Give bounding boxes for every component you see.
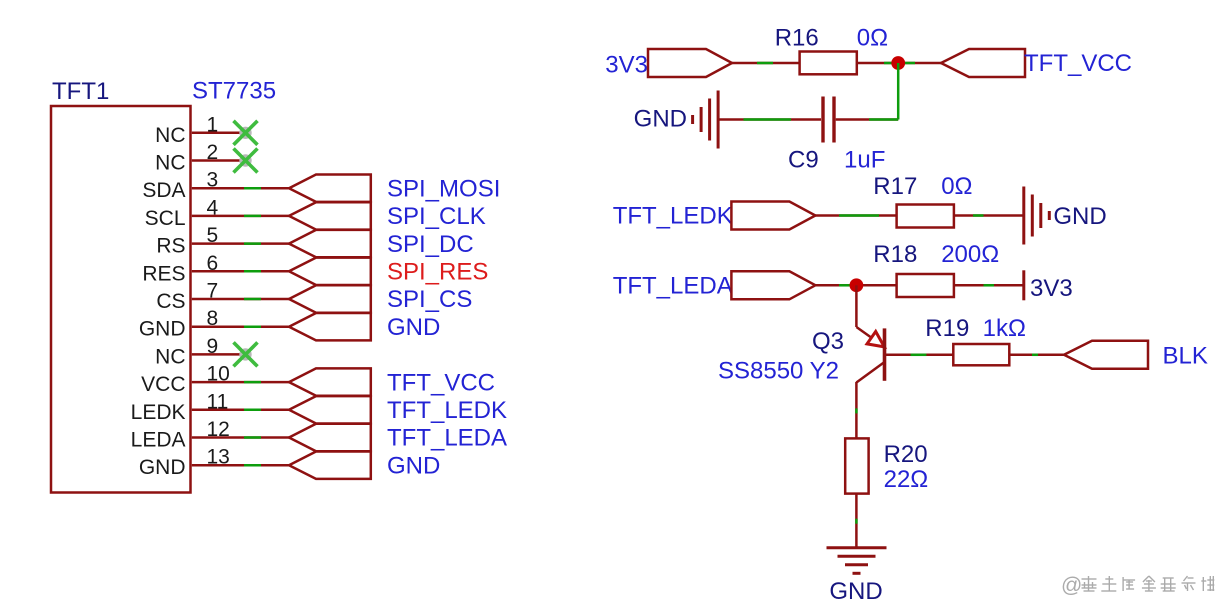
svg-text:CS: CS <box>156 290 185 313</box>
svg-text:BLK: BLK <box>1163 342 1208 369</box>
svg-text:3V3: 3V3 <box>1030 275 1073 302</box>
svg-text:TFT1: TFT1 <box>52 78 109 105</box>
svg-text:7: 7 <box>207 280 219 303</box>
svg-text:GND: GND <box>387 452 440 479</box>
svg-text:SCL: SCL <box>145 207 186 230</box>
svg-text:1kΩ: 1kΩ <box>983 315 1026 342</box>
svg-text:RS: RS <box>156 235 185 258</box>
svg-text:R17: R17 <box>873 173 917 200</box>
svg-text:5: 5 <box>207 224 219 247</box>
svg-text:NC: NC <box>155 345 185 368</box>
svg-text:11: 11 <box>207 390 229 413</box>
svg-text:1uF: 1uF <box>844 147 885 174</box>
svg-text:SPI_CS: SPI_CS <box>387 286 472 313</box>
svg-text:R18: R18 <box>873 241 917 268</box>
svg-text:SS8550 Y2: SS8550 Y2 <box>718 358 839 385</box>
svg-text:13: 13 <box>207 446 230 469</box>
svg-text:LEDA: LEDA <box>131 429 186 452</box>
svg-text:R19: R19 <box>925 315 969 342</box>
svg-text:SPI_CLK: SPI_CLK <box>387 203 486 230</box>
svg-text:TFT_VCC: TFT_VCC <box>387 369 495 396</box>
svg-text:3: 3 <box>207 169 219 192</box>
svg-text:SDA: SDA <box>142 179 185 202</box>
svg-text:2: 2 <box>207 141 219 164</box>
svg-text:NC: NC <box>155 152 185 175</box>
svg-text:GND: GND <box>387 314 440 341</box>
svg-text:LEDK: LEDK <box>131 401 186 424</box>
svg-text:R16: R16 <box>775 25 819 52</box>
svg-text:TFT_LEDA: TFT_LEDA <box>387 425 507 452</box>
svg-text:1: 1 <box>207 113 219 136</box>
svg-text:TFT_VCC: TFT_VCC <box>1024 50 1132 77</box>
svg-text:RES: RES <box>142 262 185 285</box>
svg-text:0Ω: 0Ω <box>941 173 972 200</box>
svg-text:3V3: 3V3 <box>605 52 648 79</box>
svg-text:6: 6 <box>207 252 219 275</box>
svg-text:4: 4 <box>207 196 219 219</box>
svg-text:GND: GND <box>829 578 882 601</box>
svg-text:GND: GND <box>1053 203 1106 230</box>
svg-text:SPI_MOSI: SPI_MOSI <box>387 175 500 202</box>
svg-text:SPI_RES: SPI_RES <box>387 259 488 286</box>
svg-text:0Ω: 0Ω <box>857 25 888 52</box>
svg-text:Q3: Q3 <box>812 328 844 355</box>
svg-text:R20: R20 <box>884 441 928 468</box>
svg-text:GND: GND <box>139 318 186 341</box>
svg-text:TFT_LEDK: TFT_LEDK <box>613 203 733 230</box>
svg-text:NC: NC <box>155 124 185 147</box>
svg-text:TFT_LEDA: TFT_LEDA <box>613 272 733 299</box>
svg-text:GND: GND <box>139 456 186 479</box>
svg-text:12: 12 <box>207 418 230 441</box>
svg-text:GND: GND <box>634 105 687 132</box>
svg-text:22Ω: 22Ω <box>884 466 929 493</box>
svg-text:200Ω: 200Ω <box>941 241 999 268</box>
svg-text:TFT_LEDK: TFT_LEDK <box>387 397 507 424</box>
svg-text:ST7735: ST7735 <box>192 78 276 105</box>
svg-text:C9: C9 <box>788 147 819 174</box>
svg-text:8: 8 <box>207 307 219 330</box>
svg-text:10: 10 <box>207 363 230 386</box>
svg-text:@: @ <box>1061 574 1082 597</box>
svg-text:VCC: VCC <box>141 373 185 396</box>
svg-text:9: 9 <box>207 335 219 358</box>
svg-text:SPI_DC: SPI_DC <box>387 231 474 258</box>
